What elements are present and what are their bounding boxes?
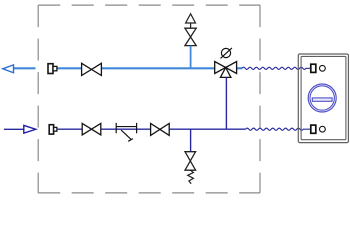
- unit enclosure outer box: [298, 54, 348, 143]
- unit enclosure inner box: [301, 56, 346, 139]
- heat meter gauge: [308, 84, 336, 112]
- return inlet arrow (left, navy): [4, 125, 36, 133]
- safety relief valve (hourglass): [185, 28, 196, 45]
- supply port connector: [311, 64, 326, 72]
- supply isolation valve: [82, 63, 102, 75]
- supply pipe segment 3way-to-hose: [237, 67, 243, 69]
- enclosure dashed boundary right edge: [259, 5, 261, 193]
- drain spring zigzag: [188, 170, 194, 184]
- enclosure dashed boundary top edge: [38, 4, 260, 6]
- return pipe segment valve2-to-hose: [169, 128, 245, 130]
- flexible hose supply: [242, 67, 311, 69]
- supply pipe cap: [48, 64, 57, 74]
- return isolation valve 2: [151, 123, 170, 135]
- vent stem: [190, 23, 192, 28]
- valve branch pipe down: [225, 77, 227, 129]
- return pipe segment cap-to-valve1: [57, 128, 82, 130]
- balancing fitting (union with drain): [116, 123, 136, 141]
- three-way control valve body: [215, 62, 237, 78]
- supply pipe segment valve-to-3way: [101, 67, 214, 69]
- supply outlet arrow (left, light blue): [3, 65, 36, 73]
- return isolation valve 1: [82, 123, 101, 134]
- enclosure dashed boundary left edge: [37, 5, 39, 193]
- enclosure dashed boundary bottom edge: [38, 192, 260, 194]
- flexible hose return: [246, 128, 311, 130]
- return pipe segment valve1-to-valve2: [101, 128, 151, 130]
- return port connector: [311, 125, 326, 133]
- drain valve (hourglass): [185, 152, 196, 171]
- return pipe cap: [49, 125, 57, 134]
- air vent triangle: [186, 14, 196, 23]
- valve actuator circle: [221, 48, 230, 57]
- supply pipe segment cap-to-valve: [57, 67, 82, 69]
- relief connecting pipe: [190, 46, 192, 69]
- drain branch pipe: [190, 129, 192, 151]
- actuator slash: [221, 48, 232, 59]
